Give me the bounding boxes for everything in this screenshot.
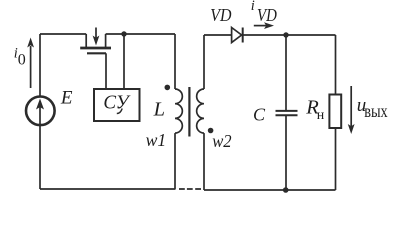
wire: left vertical (below source to bottom rail) bbox=[39, 101, 41, 189]
wire: top rail from transistor to transformer bbox=[106, 33, 175, 35]
wire: bottom-left rail bbox=[40, 188, 176, 190]
capacitor C bottom plate bbox=[276, 114, 298, 116]
wire: transformer w2 top lead bbox=[203, 35, 205, 89]
wire: capacitor branch lower bbox=[285, 116, 287, 190]
transistor VT: source lead (left, down to channel bar) bbox=[85, 34, 87, 47]
capacitor C top plate bbox=[276, 110, 298, 112]
node: junction dot at capacitor branch (bottom) bbox=[283, 187, 289, 193]
node: junction dot at capacitor branch (top) bbox=[283, 32, 288, 37]
voltage annotation arrow u_вых (down) bbox=[350, 86, 352, 127]
source E (circle) bbox=[26, 97, 55, 126]
transistor VT: control arrow (pointing down into gap) bbox=[95, 28, 97, 40]
svg-text:C: C bbox=[253, 105, 266, 125]
wire: transformer w1 top lead bbox=[174, 34, 176, 89]
transformer core bbox=[188, 87, 190, 137]
current annotation arrow iVD bbox=[254, 25, 268, 27]
source E arrow head (inside circle, pointing up) bbox=[36, 99, 44, 110]
svg-text:VD: VD bbox=[257, 5, 277, 25]
diode VD triangle bbox=[232, 28, 242, 43]
control unit box СУ bbox=[94, 89, 140, 121]
winding w2 (secondary, arcs bulge left) bbox=[197, 89, 204, 133]
transistor VT: gate bar bbox=[87, 52, 106, 54]
polarity dot w2 bbox=[208, 128, 214, 134]
wire: resistor to bottom-right corner bbox=[335, 128, 337, 190]
wire: right branch down to resistor bbox=[335, 35, 337, 95]
polarity dot w1 bbox=[165, 85, 171, 91]
svg-text:w2: w2 bbox=[212, 131, 232, 151]
diode VD cathode bar bbox=[242, 28, 244, 43]
wire: transformer w2 bottom lead bbox=[203, 133, 205, 190]
current annotation arrow i0 bbox=[30, 46, 32, 88]
winding w1 (primary, arcs bulge right) bbox=[175, 89, 182, 133]
transistor VT: drain lead (right, up to rail) bbox=[105, 34, 107, 47]
wire: gate to control box bbox=[105, 53, 107, 89]
svg-text:i: i bbox=[251, 0, 255, 14]
resistor Rн body bbox=[329, 95, 341, 129]
transistor VT: channel bar bbox=[80, 47, 111, 50]
wire: diode to top-right corner bbox=[243, 34, 336, 36]
svg-text:E: E bbox=[60, 87, 73, 108]
wire: transformer w1 bottom lead bbox=[174, 133, 176, 189]
dashed link between grounds bbox=[179, 188, 201, 190]
node: junction dot at drain rail bbox=[121, 31, 126, 36]
wire: bottom-right rail bbox=[204, 189, 336, 191]
wire: left vertical (top, above source) bbox=[39, 34, 41, 96]
svg-text:w1: w1 bbox=[146, 130, 167, 150]
wire: top-left rail bbox=[40, 33, 86, 35]
wire: w2 to diode anode bbox=[204, 34, 232, 36]
У descender tail bbox=[117, 109, 122, 114]
svg-text:VD: VD bbox=[210, 5, 231, 25]
svg-text:вых: вых bbox=[364, 101, 388, 121]
svg-text:н: н bbox=[317, 108, 325, 123]
wire: capacitor branch upper bbox=[285, 35, 287, 110]
wire: junction down to control box bbox=[123, 34, 125, 89]
svg-text:СУ: СУ bbox=[103, 92, 130, 114]
svg-text:0: 0 bbox=[18, 51, 26, 68]
svg-text:L: L bbox=[153, 99, 165, 121]
